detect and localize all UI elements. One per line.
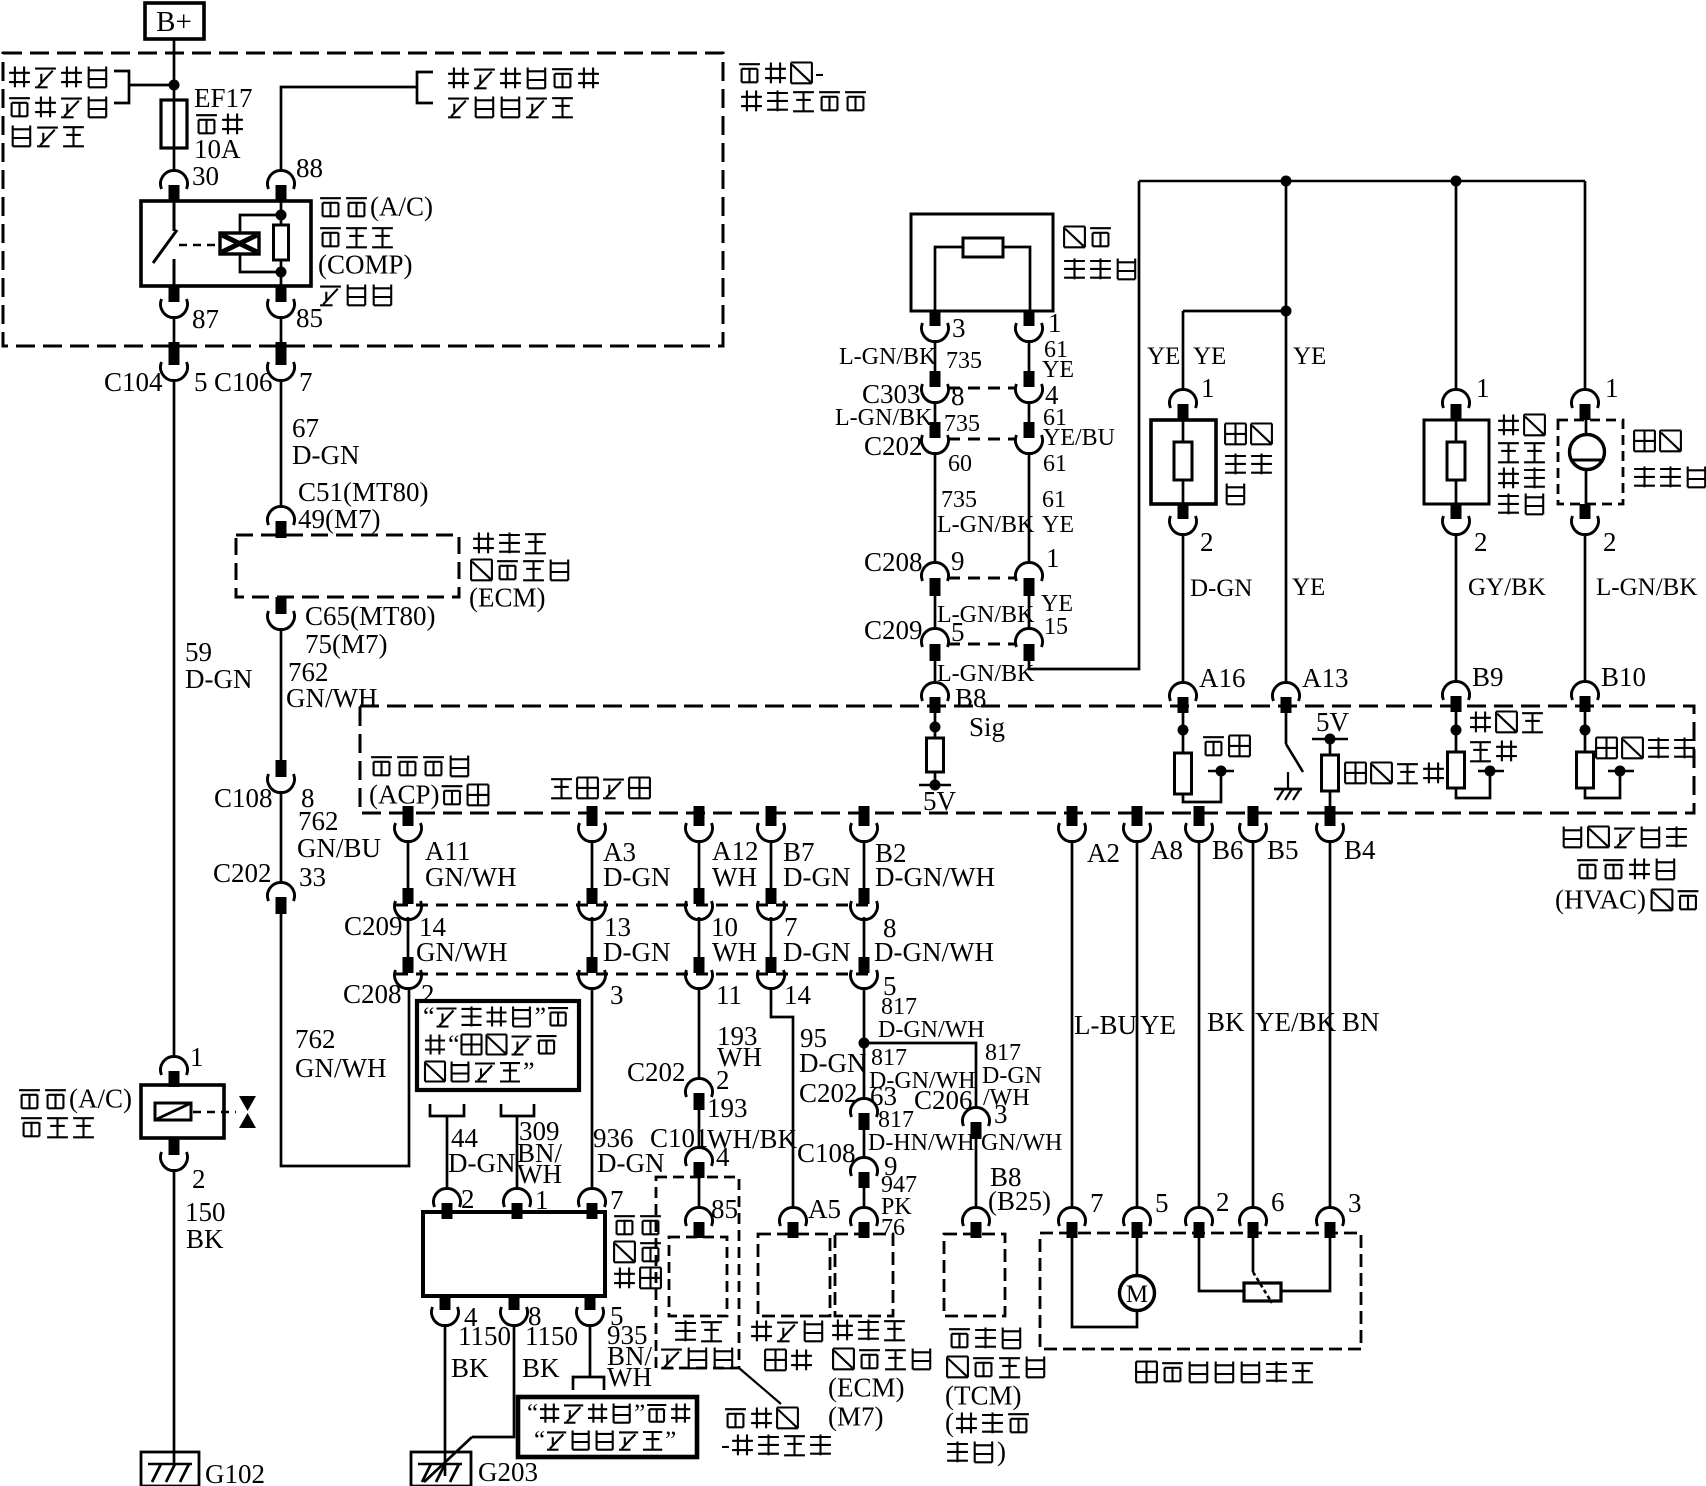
svg-text:BK: BK: [186, 1224, 224, 1254]
svg-text:L-GN/BK: L-GN/BK: [1596, 574, 1697, 601]
junction dot on B+ feed: [169, 80, 180, 91]
svg-text:GN/WH: GN/WH: [425, 862, 516, 892]
svg-text:2: 2: [192, 1164, 206, 1194]
motor M circle: [1120, 1276, 1155, 1311]
svg-text:B6: B6: [1212, 835, 1244, 865]
svg-text:YE: YE: [1140, 1010, 1176, 1040]
svg-text:): ): [997, 1437, 1006, 1467]
svg-text:D-GN: D-GN: [783, 862, 851, 892]
svg-text:2: 2: [1200, 527, 1214, 557]
svg-text:1: 1: [1476, 373, 1490, 403]
label fuse box - under hood: [739, 63, 760, 65]
wire to C202 row: [934, 401, 937, 422]
HVAC pin B5 bottom connector: [1248, 806, 1259, 826]
A16 signal resistor network: [1178, 725, 1189, 736]
wire to connector 4: [698, 1110, 701, 1149]
wire YE from C209 right and up to rail: [1029, 181, 1139, 669]
svg-text:BK: BK: [522, 1353, 560, 1383]
label engine control module ECM: [478, 533, 480, 554]
sun load sensor dashed box: [1558, 420, 1623, 504]
svg-text:61: 61: [1043, 451, 1067, 477]
wire 85 down to fusebox edge: [280, 316, 283, 342]
compressor pin 2 connector: [169, 1138, 180, 1155]
wire rail drop to A13: [1285, 181, 1288, 684]
wire 762 down to C108: [280, 628, 283, 760]
svg-text:6: 6: [1271, 1187, 1285, 1217]
svg-text:GN/WH: GN/WH: [286, 683, 377, 713]
relay pin 85 connector: [276, 286, 287, 302]
ambient sensor pin 3 connector: [930, 311, 941, 326]
svg-text:GN/WH: GN/WH: [981, 1130, 1062, 1156]
connector row C208 (mid): [396, 973, 878, 976]
wire B+ down to fuse: [173, 39, 176, 102]
A12 column wire to C202: [698, 987, 701, 1080]
svg-text:60: 60: [948, 451, 972, 477]
svg-text:D-GN: D-GN: [185, 664, 253, 694]
label distribution circuit in wiring system (right): [453, 68, 455, 89]
connector C108 pin 9: [851, 1157, 878, 1176]
svg-text:GY/BK: GY/BK: [1468, 574, 1546, 601]
rail junction dot 1: [1281, 176, 1292, 187]
svg-text:59: 59: [185, 637, 212, 667]
svg-text:BN: BN: [1342, 1007, 1380, 1037]
wire rail drop to coolant sensor: [1455, 181, 1458, 391]
in-car sensor resistor: [1174, 442, 1192, 480]
connector row C209 (sensor): [948, 643, 1016, 646]
ambient sensor resistor: [963, 238, 1003, 257]
panel pin 8 connector: [509, 1296, 520, 1310]
svg-text:D-GN: D-GN: [799, 1048, 867, 1078]
relay pin 30 connector: [161, 170, 188, 189]
junction dot B2 branch: [859, 1038, 870, 1049]
svg-text:YE/BU: YE/BU: [1043, 425, 1115, 451]
svg-text:-: -: [815, 58, 824, 88]
sun sensor pin 2 connector: [1580, 504, 1591, 519]
connector row C303: [948, 387, 1016, 390]
panel pin 2 connector: [434, 1188, 461, 1207]
actuator potentiometer wires: [1199, 1238, 1244, 1291]
compressor pin 1 connector: [161, 1056, 188, 1075]
label coolant temperature: [1475, 712, 1477, 733]
label sun sensor: [1634, 429, 1655, 431]
wire B6 BK down: [1198, 840, 1201, 1209]
off-page bracket (distribution circuit right): [417, 72, 433, 103]
panel pin 4 connector: [440, 1296, 451, 1310]
label serial data: [551, 778, 572, 780]
B10 sun load resistor network: [1580, 725, 1591, 736]
ground G102: [141, 1452, 199, 1486]
wire 44 D-GN to panel pin 2: [446, 1116, 449, 1190]
HVAC pin B7 bottom connector: [766, 806, 777, 826]
label fuse box engine bay: [725, 1408, 746, 1410]
sun sensor pin 1 connector: [1571, 389, 1598, 408]
HVAC pin B10 connector: [1571, 681, 1598, 700]
svg-text:C209: C209: [864, 615, 923, 645]
svg-text:735: 735: [941, 487, 977, 513]
svg-text:B+: B+: [156, 6, 192, 38]
wiper switch pin A5 connector: [780, 1207, 807, 1226]
svg-text:2: 2: [461, 1184, 475, 1214]
connector row C202 (sensor): [948, 438, 1016, 441]
svg-text:5V: 5V: [923, 786, 957, 816]
svg-text:2: 2: [1216, 1187, 1230, 1217]
connector C202 pin 63: [851, 1098, 878, 1117]
B8 pullup resistor to 5V: [930, 722, 941, 733]
svg-text:C108: C108: [214, 783, 273, 813]
svg-text:7: 7: [610, 1185, 624, 1215]
wire to C209 row: [934, 596, 937, 630]
HVAC pin A16 connector: [1170, 682, 1197, 701]
svg-text:B8: B8: [955, 683, 987, 713]
svg-text:”: ”: [665, 1427, 676, 1454]
in-car temperature sensor box: [1151, 420, 1216, 504]
bracket under lamp box left: [430, 1104, 464, 1116]
svg-text:L-GN/BK: L-GN/BK: [835, 405, 933, 431]
svg-text:3: 3: [994, 1099, 1008, 1129]
label distribution circuit in wiring system (left): [14, 67, 16, 88]
wire L-GN/BK down to B10: [1584, 533, 1587, 683]
HVAC pin B6 bottom connector: [1194, 806, 1205, 826]
svg-text:1: 1: [1201, 373, 1215, 403]
coolant sensor pin 1 connector: [1443, 389, 1470, 408]
coolant sensor pin 2 connector: [1451, 504, 1462, 519]
svg-text:D-GN: D-GN: [603, 937, 671, 967]
label coolant temperature sensor: [1503, 415, 1505, 436]
svg-text:49(M7): 49(M7): [298, 504, 381, 534]
svg-text:150: 150: [185, 1197, 226, 1227]
svg-text:1: 1: [1605, 373, 1619, 403]
connector C108 pin 8: [276, 760, 287, 777]
relay K: A/C compressor (COMP) relay box: [141, 201, 311, 286]
svg-text:WH: WH: [712, 937, 757, 967]
ground G203: [411, 1452, 471, 1486]
fuse box (engine compartment) dashed outline: [3, 53, 723, 346]
svg-text:L-BU: L-BU: [1074, 1010, 1137, 1040]
svg-text:WH: WH: [607, 1362, 652, 1392]
A/C control panel box: [423, 1212, 605, 1296]
svg-text:A16: A16: [1199, 663, 1246, 693]
svg-text:7: 7: [1090, 1188, 1104, 1218]
svg-text:BK: BK: [1207, 1007, 1245, 1037]
svg-text:D-GN: D-GN: [448, 1148, 516, 1178]
svg-text:(ECM): (ECM): [469, 583, 546, 613]
rail junction dot 2: [1451, 176, 1462, 187]
label blend door actuator: [1136, 1360, 1157, 1362]
svg-text:D-GN: D-GN: [783, 937, 851, 967]
defogger relay inner dashed box: [669, 1237, 727, 1316]
label signal: [1203, 736, 1224, 738]
HVAC pin A13 connector: [1273, 682, 1300, 701]
label transmission control module TCM: [949, 1328, 970, 1330]
svg-text:”: ”: [535, 1002, 547, 1031]
svg-text:GN/WH: GN/WH: [416, 937, 507, 967]
svg-text:A5: A5: [808, 1194, 841, 1224]
label engine control module ECM M7: [837, 1320, 839, 1341]
label ACP signal: [371, 756, 392, 758]
connector C202 pin 2 (A12): [686, 1078, 713, 1097]
junction dot in-car sensor feed: [1281, 306, 1292, 317]
wire 935 BN/WH pin5 to bracket: [589, 1324, 592, 1377]
HVAC pin B2 bottom connector: [859, 806, 870, 826]
wire GY/BK down to B9: [1455, 533, 1458, 683]
svg-text:5: 5: [194, 367, 208, 397]
svg-text:75(M7): 75(M7): [305, 629, 388, 659]
wire 762 GN/WH loop down right up to C208: [281, 914, 409, 1166]
svg-text:”: ”: [634, 1400, 645, 1427]
leader line to fuse box label: [739, 1368, 781, 1404]
svg-text:67: 67: [292, 413, 319, 443]
wire A8 YE down: [1136, 840, 1139, 1209]
svg-text:33: 33: [299, 862, 326, 892]
wiper switch dashed box: [758, 1234, 830, 1316]
svg-text:D-GN: D-GN: [292, 440, 360, 470]
svg-text:(HVAC): (HVAC): [1555, 885, 1646, 915]
svg-text:D-GN: D-GN: [597, 1148, 665, 1178]
svg-text:8: 8: [951, 381, 965, 411]
svg-text:735: 735: [944, 411, 980, 437]
label A/C compressor: [19, 1089, 40, 1091]
svg-text:1150: 1150: [458, 1321, 511, 1351]
relay coil: [220, 233, 259, 254]
connector C106 pin 7: [276, 342, 287, 365]
HVAC control module dashed box: [360, 706, 1694, 813]
coolant temperature sensor box: [1424, 420, 1489, 504]
svg-text:YE: YE: [1147, 343, 1180, 370]
wire to C208 row: [934, 452, 937, 564]
fuse EF17 10A: [161, 100, 187, 148]
svg-text:(ECM): (ECM): [828, 1373, 905, 1403]
in-car sensor pin 1 connector: [1170, 389, 1197, 408]
connector C104 pin 5: [169, 342, 180, 365]
panel pin 5 connector: [585, 1296, 596, 1310]
svg-text:D-GN/WH: D-GN/WH: [875, 862, 995, 892]
defogger relay outer dashed box: [656, 1177, 739, 1368]
svg-text:G203: G203: [478, 1457, 538, 1486]
svg-text:(COMP): (COMP): [318, 250, 413, 280]
wire D-GN down to A16: [1182, 533, 1185, 684]
wire A2 L-BU down: [1071, 840, 1074, 1209]
wire to TCM B8: [975, 1139, 978, 1209]
YE supply rail: [1139, 180, 1585, 183]
panel pin 7 connector: [579, 1188, 606, 1207]
svg-text:4: 4: [716, 1142, 730, 1172]
svg-text:(ACP): (ACP): [369, 780, 440, 810]
A/C compressor box: [141, 1085, 224, 1138]
bracket under lamp box right: [501, 1104, 534, 1116]
svg-text:3: 3: [952, 313, 966, 343]
wire pin 88 up and right to bracket: [281, 87, 417, 172]
svg-text:YE/BK: YE/BK: [1255, 1007, 1337, 1037]
compressor solenoid: [155, 1103, 191, 1120]
svg-text:14: 14: [784, 980, 812, 1010]
svg-text:1150: 1150: [525, 1321, 578, 1351]
svg-text:(B25): (B25): [988, 1186, 1051, 1216]
wires from HVAC pins to C209 row: [407, 840, 410, 888]
wire to C202: [280, 791, 283, 884]
wire 1150 BK pin4 to G203: [444, 1324, 447, 1476]
svg-text:D-GN: D-GN: [603, 862, 671, 892]
wire L-GN/BK down to HVAC B8: [934, 661, 937, 684]
svg-text:61: 61: [1042, 487, 1066, 513]
actuator motor feed wires: [1072, 1238, 1137, 1327]
svg-text:D-GN/WH: D-GN/WH: [878, 1017, 985, 1043]
svg-text:WH: WH: [712, 862, 757, 892]
svg-text:5: 5: [1155, 1188, 1169, 1218]
relay pin 87 connector: [169, 286, 180, 302]
label HVAC control: [1563, 827, 1565, 848]
HVAC pin B8 connector: [922, 682, 949, 701]
interior lamp dimming circuit reference box: [417, 1001, 579, 1090]
svg-text:BK: BK: [451, 1353, 489, 1383]
label in-car sensor: [1225, 422, 1246, 424]
ambient sensor internal wires: [935, 247, 963, 311]
svg-text:7: 7: [299, 367, 313, 397]
in-car sensor pin 2 connector: [1178, 504, 1189, 519]
svg-text:C208: C208: [343, 979, 402, 1009]
relay switch contact: [173, 201, 176, 231]
sun sensor photodiode symbol: [1570, 435, 1605, 470]
ECM M7 dashed box: [835, 1234, 893, 1316]
svg-text:L-GN/BK: L-GN/BK: [839, 344, 937, 370]
svg-text:3: 3: [1348, 1188, 1362, 1218]
connector row C208 (sensor): [948, 577, 1016, 580]
B2 left branch to C202-63: [863, 1043, 866, 1100]
svg-text:A13: A13: [1302, 663, 1349, 693]
svg-text:15: 15: [1044, 614, 1068, 640]
svg-text:C208: C208: [864, 547, 923, 577]
relay internal resistor: [274, 225, 289, 260]
TCM dashed box: [944, 1234, 1005, 1316]
svg-text:1: 1: [190, 1042, 204, 1072]
B9 coolant temp resistor network: [1451, 725, 1462, 736]
B2 column wire down: [863, 987, 866, 1043]
svg-text:G102: G102: [205, 1459, 265, 1486]
svg-text:762: 762: [298, 806, 339, 836]
svg-text:5: 5: [951, 617, 965, 647]
svg-text:85: 85: [296, 303, 323, 333]
wire A3 column down to panel pin 7: [591, 987, 594, 1190]
svg-text:C206: C206: [914, 1085, 973, 1115]
wire B5 YE/BK down: [1252, 840, 1255, 1209]
svg-text:10A: 10A: [194, 134, 241, 164]
defogger relay pin 85 connector: [686, 1207, 713, 1226]
svg-text:M: M: [1126, 1281, 1148, 1308]
svg-text:2: 2: [1474, 527, 1488, 557]
svg-text:YE: YE: [1042, 512, 1074, 538]
svg-text:30: 30: [192, 161, 219, 191]
wire to C303 row: [934, 340, 937, 373]
wire 309 BN/WH to panel pin 1: [516, 1116, 519, 1190]
label A/C compressor relay: [320, 197, 341, 199]
ECM pin 75 connector C65: [276, 597, 287, 614]
svg-text:735: 735: [946, 348, 982, 374]
svg-text:B9: B9: [1472, 662, 1504, 692]
potentiometer wiper from pin 6: [1252, 1238, 1255, 1272]
svg-text:D-GN: D-GN: [1190, 575, 1253, 602]
svg-text:85: 85: [711, 1194, 738, 1224]
wire into defogger relay box: [698, 1178, 701, 1209]
power node B+ box: [145, 3, 204, 39]
junction dots on relay resistor: [276, 210, 287, 221]
wire 87 down to fusebox edge: [173, 316, 176, 342]
ambient sensor pin 1 connector: [1024, 311, 1035, 326]
actuator pin 6 connector: [1240, 1207, 1267, 1226]
svg-text:C202: C202: [213, 858, 272, 888]
branch wire to C206: [864, 1043, 976, 1108]
actuator pin 3 connector: [1317, 1207, 1344, 1226]
svg-text:C108: C108: [797, 1138, 856, 1168]
svg-text:YE: YE: [1292, 574, 1325, 601]
coolant sensor resistor: [1447, 442, 1465, 480]
connector C202 pin 33: [268, 882, 295, 901]
relay pin 88 connector: [268, 170, 295, 189]
off-page bracket (distribution circuit): [114, 71, 129, 103]
G203 diagonal entry: [424, 1437, 472, 1482]
svg-text:C51(MT80): C51(MT80): [298, 477, 429, 507]
compressor valve bowtie symbol: [239, 1096, 256, 1111]
connector row C209 (mid): [396, 904, 878, 907]
label defogger relay: [675, 1322, 696, 1324]
distribution circuit reference box: [518, 1397, 697, 1457]
svg-text:(TCM): (TCM): [945, 1381, 1022, 1411]
actuator potentiometer resistor: [1244, 1283, 1281, 1301]
svg-text:1: 1: [1048, 308, 1062, 338]
svg-text:A2: A2: [1087, 838, 1120, 868]
label A/C control panel: [614, 1215, 635, 1217]
svg-text:“: “: [534, 1427, 545, 1454]
svg-text:C104: C104: [104, 367, 163, 397]
label wiper switch: [756, 1321, 758, 1342]
svg-text:C202: C202: [864, 431, 923, 461]
svg-text:GN/WH: GN/WH: [295, 1053, 386, 1083]
svg-text:“: “: [448, 1030, 460, 1059]
panel pin 1 connector: [504, 1188, 531, 1207]
TCM pin B8(B25) connector: [963, 1207, 990, 1226]
HVAC pin A11 bottom connector: [403, 806, 414, 826]
wire to in-car sensor pin 1: [1183, 310, 1286, 313]
label sun load: [1596, 736, 1617, 738]
ECM dashed box: [236, 535, 459, 597]
connector pin 4 (C101): [686, 1147, 713, 1166]
svg-text:“: “: [527, 1400, 538, 1427]
compressor dashed link to valve: [193, 1111, 236, 1114]
wire B4 BN down: [1329, 840, 1332, 1209]
svg-text:EF17: EF17: [194, 83, 253, 113]
ambient sensor box: [911, 214, 1053, 311]
connector C206 pin 3: [963, 1107, 990, 1126]
actuator pin 7 connector: [1059, 1207, 1086, 1226]
label ambient sensor: [1064, 225, 1085, 227]
svg-text:B5: B5: [1267, 835, 1299, 865]
ECM pin 49 connector C51: [268, 506, 295, 525]
svg-text:C202: C202: [627, 1057, 686, 1087]
wire 59 D-GN : C104 down to compressor: [173, 379, 176, 1058]
relay actuation dashed link: [179, 244, 218, 247]
svg-text:C209: C209: [344, 911, 403, 941]
HVAC pin A2 bottom connector: [1067, 806, 1078, 826]
svg-text:L-GN/BK: L-GN/BK: [937, 512, 1035, 538]
svg-text:(M7): (M7): [828, 1402, 884, 1432]
svg-text:C65(MT80): C65(MT80): [305, 601, 436, 631]
svg-text:(: (: [945, 1408, 954, 1438]
svg-text:9: 9: [951, 546, 965, 576]
wire to ECM M7 pin 76: [863, 1188, 866, 1209]
svg-text:“: “: [423, 1002, 435, 1031]
svg-text:A8: A8: [1150, 835, 1183, 865]
label in-car temperature: [1345, 761, 1366, 763]
svg-text:C106: C106: [214, 367, 273, 397]
svg-text:2: 2: [1603, 527, 1617, 557]
